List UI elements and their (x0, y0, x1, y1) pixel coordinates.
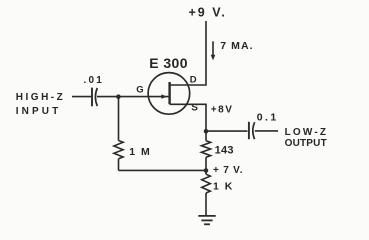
svg-text:INPUT: INPUT (16, 106, 62, 117)
resistor R2 143 (201, 141, 210, 174)
svg-text:HIGH-Z: HIGH-Z (16, 92, 65, 103)
svg-text:G: G (136, 85, 143, 96)
svg-text:7 MA.: 7 MA. (220, 40, 254, 52)
svg-text:LOW-Z: LOW-Z (285, 127, 329, 138)
current arrow 7 MA (211, 41, 216, 60)
node gate junction dot (116, 94, 121, 99)
wire to output capacitor (206, 130, 248, 132)
svg-text:0.1: 0.1 (257, 111, 279, 123)
node output branch dot (204, 129, 209, 134)
resistor R1 1M (114, 97, 123, 171)
svg-text:+9 V.: +9 V. (189, 5, 227, 19)
wire output stub (255, 130, 278, 132)
capacitor C2 0.1 (249, 122, 255, 139)
svg-text:1 K: 1 K (213, 181, 234, 193)
svg-text:+ 7 V.: + 7 V. (213, 165, 243, 176)
svg-text:143: 143 (215, 145, 234, 157)
svg-text:D: D (190, 75, 197, 86)
wire input to capacitor (72, 96, 92, 98)
ground (198, 216, 215, 224)
resistor R3 1K (202, 174, 211, 216)
wire source lead down to resistor 143 (170, 104, 206, 141)
transistor Q1 E300 JFET (148, 73, 190, 115)
wire drain lead and supply vertical (170, 21, 207, 85)
svg-text:.01: .01 (84, 75, 105, 86)
wire capacitor to gate (97, 96, 169, 98)
wire 1M bottom to +7V junction (119, 169, 207, 171)
node +7V junction dot (204, 168, 209, 173)
label HIGH-Z INPUT (16, 92, 65, 117)
svg-text:+8V: +8V (211, 104, 234, 115)
svg-text:E 300: E 300 (149, 55, 188, 71)
svg-text:OUTPUT: OUTPUT (285, 138, 327, 149)
capacitor C1 .01 (92, 88, 97, 107)
svg-text:1 M: 1 M (129, 146, 151, 158)
label LOW-Z OUTPUT (285, 127, 329, 149)
